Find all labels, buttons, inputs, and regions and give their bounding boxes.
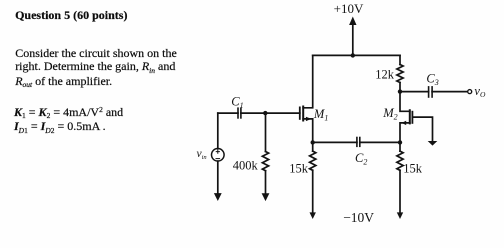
source vin xyxy=(212,113,225,201)
svg-text:M2: M2 xyxy=(382,106,397,122)
svg-text:M1: M1 xyxy=(313,107,328,123)
formula line K1 = K2 = 4mA/V^2 xyxy=(14,105,123,120)
node rail junction xyxy=(351,53,355,57)
formula line ID1 = ID2 = 0.5mA xyxy=(14,119,106,134)
node M1 source xyxy=(311,140,315,144)
svg-text:vO: vO xyxy=(474,84,486,99)
title: Question 5 (60 points) xyxy=(15,8,127,23)
wire M2 gate to ground xyxy=(412,117,432,141)
svg-text:C3: C3 xyxy=(426,72,438,88)
node C1/400k junction xyxy=(263,111,267,115)
capacitor C1 xyxy=(218,108,265,118)
resistor 12k xyxy=(397,55,403,91)
resistor 400k xyxy=(262,113,270,201)
wire top rail xyxy=(313,54,400,56)
node 12k/C3/M2 drain xyxy=(398,89,402,93)
ground M2 gate xyxy=(428,141,438,146)
svg-text:C2: C2 xyxy=(355,151,367,167)
svg-text:vin: vin xyxy=(197,148,207,161)
transistor M1 xyxy=(300,107,313,143)
svg-text:15k: 15k xyxy=(403,161,423,175)
svg-text:15k: 15k xyxy=(289,161,309,175)
terminal vO xyxy=(468,90,472,94)
paragraph: problem statement xyxy=(15,47,177,89)
svg-text:+10V: +10V xyxy=(334,1,364,16)
wire gate of M1 xyxy=(265,112,300,114)
+10V supply arrow xyxy=(349,17,356,56)
resistor 15k right xyxy=(397,142,403,219)
svg-text:−10V: −10V xyxy=(343,210,374,225)
svg-text:12k: 12k xyxy=(375,68,395,82)
capacitor C3 xyxy=(400,87,468,97)
node M2 source xyxy=(398,140,402,144)
svg-text:C1: C1 xyxy=(231,94,243,110)
svg-text:400k: 400k xyxy=(233,158,259,172)
wire M1 drain to rail xyxy=(303,55,313,107)
transistor M2 xyxy=(400,92,412,143)
capacitor C2 xyxy=(313,138,400,147)
resistor 15k left xyxy=(310,142,316,219)
